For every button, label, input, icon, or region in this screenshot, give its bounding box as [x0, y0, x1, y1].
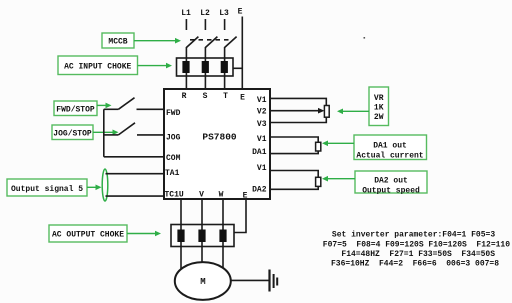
meter DA1 body [316, 142, 321, 151]
wire choke to earth line [233, 67, 242, 69]
svg-text:F14=48HZ F27=1 F33=50S F34=5: F14=48HZ F27=1 F33=50S F34=50S [341, 250, 495, 259]
speck [364, 37, 366, 39]
svg-text:V1: V1 [257, 164, 267, 173]
meter DA2 body [316, 177, 321, 186]
wire W output [222, 199, 224, 268]
wire TA1 [106, 173, 165, 175]
svg-text:COM: COM [166, 154, 181, 163]
arrow VR [337, 109, 369, 115]
wire DA1 [270, 151, 318, 154]
svg-text:TC1U: TC1U [165, 191, 184, 200]
label box AC OUTPUT CHOKE [49, 225, 127, 242]
potentiometer VR body [324, 106, 329, 118]
svg-text:V: V [199, 191, 204, 200]
svg-text:F07=5 F08=4 F09=120S F10=120S: F07=5 F08=4 F09=120S F10=120S F12=110 [323, 240, 510, 249]
label box VR 1K 2W [369, 87, 389, 126]
connector output signal ellipse [102, 169, 108, 201]
svg-text:TA1: TA1 [165, 169, 180, 178]
arrow DA2 [322, 176, 355, 182]
label box MCCB [102, 33, 134, 48]
svg-text:L2: L2 [200, 9, 210, 18]
arrow JOG/STOP [93, 130, 119, 136]
wire U output [180, 199, 182, 269]
svg-text:T: T [223, 92, 228, 101]
arrow FWD/STOP [97, 103, 112, 109]
svg-text:AC INPUT CHOKE: AC INPUT CHOKE [64, 63, 131, 72]
svg-text:E: E [240, 94, 245, 103]
svg-text:V1: V1 [257, 96, 267, 105]
node E input earth [238, 8, 243, 90]
wire phase S breaker to block [204, 47, 206, 89]
arrow DA1 [322, 141, 354, 147]
arrow Output signal 5 [87, 185, 102, 191]
svg-text:E: E [238, 8, 243, 17]
label box JOG/STOP [52, 125, 93, 140]
inductor input choke L-IN [177, 58, 234, 76]
svg-text:Actual current: Actual current [356, 152, 423, 161]
svg-text:V3: V3 [257, 120, 267, 129]
svg-text:DA2 out: DA2 out [374, 177, 408, 186]
svg-text:JOG: JOG [166, 134, 181, 143]
svg-text:DA1: DA1 [252, 148, 267, 157]
svg-text:R: R [182, 92, 187, 101]
ground [270, 270, 278, 292]
label box FWD/STOP [54, 101, 97, 116]
switch S1 FWD [104, 98, 164, 110]
svg-text:DA1 out: DA1 out [373, 141, 407, 150]
wire V2 wiper arrow [270, 108, 325, 114]
svg-text:FWD/STOP: FWD/STOP [56, 106, 95, 115]
svg-text:VR: VR [374, 94, 384, 103]
svg-text:1K: 1K [374, 104, 384, 113]
svg-text:JOG/STOP: JOG/STOP [53, 130, 92, 139]
wire phase R breaker to block [185, 47, 187, 89]
svg-text:V1: V1 [257, 135, 267, 144]
wire motor to ground [231, 279, 269, 281]
arrow AC INPUT CHOKE [138, 63, 173, 69]
svg-text:W: W [219, 191, 224, 200]
svg-text:L1: L1 [181, 9, 191, 18]
label parameter settings [323, 231, 510, 269]
svg-text:DA2: DA2 [252, 185, 267, 194]
wire E output down [234, 199, 246, 233]
svg-text:L3: L3 [219, 9, 229, 18]
svg-text:AC OUTPUT CHOKE: AC OUTPUT CHOKE [52, 231, 124, 240]
svg-text:2W: 2W [374, 113, 384, 122]
wire COM [104, 156, 164, 158]
label box DA1 out [354, 135, 427, 161]
svg-text:FWD: FWD [166, 109, 181, 118]
svg-text:F36=10HZ F44=2 F66=6 006=3: F36=10HZ F44=2 F66=6 006=3 007=8 [331, 259, 499, 268]
wire V1 to DA2 meter [270, 171, 318, 178]
svg-text:Output speed: Output speed [362, 186, 420, 195]
wire phase T breaker to block [224, 47, 226, 89]
wire DA2 [270, 186, 318, 189]
wire TC1 [106, 195, 165, 197]
svg-text:MCCB: MCCB [108, 37, 127, 46]
breaker MCCB 3-pole blades [186, 37, 236, 48]
wire V3 to potentiometer [270, 117, 326, 122]
label box DA2 out [355, 171, 427, 195]
svg-text:Output signal 5: Output signal 5 [11, 185, 83, 194]
node L3 [219, 9, 229, 30]
wire common bus [103, 109, 105, 157]
wire V1 to potentiometer [270, 98, 326, 105]
inverter U1 PS7800 body [164, 89, 270, 199]
wire V1 to DA1 meter [270, 137, 318, 142]
motor M1 [175, 262, 231, 300]
svg-text:V2: V2 [257, 108, 267, 117]
switch S2 JOG [104, 123, 164, 135]
svg-text:M: M [200, 277, 205, 287]
svg-text:S: S [203, 92, 208, 101]
label box AC INPUT CHOKE [58, 56, 138, 75]
wire V output [201, 199, 203, 263]
node L1 [181, 9, 191, 30]
label box Output signal 5 [7, 179, 87, 196]
svg-text:Set inverter parameter:F04=1 F: Set inverter parameter:F04=1 F05=3 [332, 231, 495, 240]
arrow MCCB [134, 38, 181, 44]
node L2 [200, 9, 210, 30]
arrow AC OUTPUT CHOKE [127, 231, 161, 237]
svg-text:PS7800: PS7800 [202, 132, 237, 143]
inductor output choke L-OUT [171, 225, 234, 247]
svg-text:E: E [243, 192, 248, 201]
